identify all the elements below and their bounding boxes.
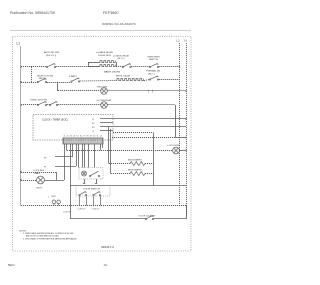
wire rung3 left xyxy=(58,90,101,92)
wire bundle v8 xyxy=(84,144,86,168)
ground symbol xyxy=(48,194,57,198)
switch S4 selector xyxy=(37,75,53,82)
fan motor M1 xyxy=(33,170,45,189)
switch S5 limit xyxy=(69,76,80,82)
broil element R4 xyxy=(128,170,145,176)
svg-text:FAN: FAN xyxy=(35,172,41,175)
svg-text:DOOR SWITCH: DOOR SWITCH xyxy=(83,188,101,190)
control stub wire P4 xyxy=(92,131,113,134)
control board label xyxy=(42,119,68,121)
svg-text:LOCK MTR: LOCK MTR xyxy=(168,145,181,147)
svg-text:120V: 120V xyxy=(51,196,56,198)
svg-text:L1: L1 xyxy=(17,42,21,46)
svg-text:COM NO: COM NO xyxy=(63,212,72,214)
svg-text:FEF366C: FEF366C xyxy=(103,11,120,15)
L2 bus wire xyxy=(179,43,181,206)
control stub wire P3 xyxy=(92,127,186,130)
wire bundle v7 xyxy=(82,144,84,168)
wire bake element right xyxy=(145,163,154,165)
terminal label lower xyxy=(63,212,72,214)
node L1 label xyxy=(17,42,21,46)
note heading xyxy=(20,230,27,232)
svg-text:SWITCH: SWITCH xyxy=(149,59,159,61)
wire bundle v1 xyxy=(64,144,66,180)
header wiring code text xyxy=(102,22,137,26)
wire broil element right xyxy=(145,173,154,175)
svg-text:(N.O.): (N.O.) xyxy=(46,55,57,57)
svg-text:CLOCK / TIMER (EOC): CLOCK / TIMER (EOC) xyxy=(42,119,68,121)
door lock pin 1 xyxy=(83,179,85,184)
wire rung2 to L2 xyxy=(159,79,180,81)
svg-text:2. DISCONNECT POWER BEFORE SER: 2. DISCONNECT POWER BEFORE SERVICING APP… xyxy=(23,237,77,240)
svg-text:COM NO: COM NO xyxy=(78,208,87,210)
svg-text:SELECTOR SW: SELECTOR SW xyxy=(37,75,53,77)
control stub wire P2 xyxy=(92,123,113,126)
switch S2 oven temp xyxy=(113,54,131,67)
wire lock motor to N xyxy=(179,150,186,151)
switch S7b door light xyxy=(49,101,57,105)
wire rung4 right xyxy=(107,104,175,106)
receptacle J1 xyxy=(52,200,60,206)
wire bundle v2 xyxy=(66,144,68,151)
switch S3 oven vent xyxy=(147,56,161,67)
lock motor M2 xyxy=(168,145,181,154)
wire stub left lower xyxy=(44,167,76,169)
wire rung4 mid xyxy=(58,104,101,106)
footer page number xyxy=(103,263,108,267)
header model number text xyxy=(103,11,120,15)
footer date code xyxy=(8,263,15,267)
junction L1 fan rung xyxy=(20,171,22,173)
L1 bus wire xyxy=(20,47,22,206)
wire N bus lower solid xyxy=(186,206,188,220)
N bus wire xyxy=(186,43,188,218)
svg-text:P4: P4 xyxy=(44,158,46,160)
wire bundle v11 xyxy=(100,144,102,151)
door lock dashed box xyxy=(79,168,103,180)
junction L1 fan xyxy=(20,179,22,181)
wire rung1 after element xyxy=(116,66,123,68)
svg-text:316417-2: 316417-2 xyxy=(101,246,115,249)
note line 2 xyxy=(26,235,59,238)
svg-text:(N.C.): (N.C.) xyxy=(148,73,155,75)
wire fan corner xyxy=(56,172,58,180)
bake element R3 xyxy=(128,160,145,166)
door switch S9 xyxy=(78,191,87,210)
svg-text:COOLING: COOLING xyxy=(33,170,45,172)
door lock switch S8 xyxy=(89,171,99,176)
wire rung1 mid xyxy=(56,66,100,68)
wire stub left upper xyxy=(44,157,73,160)
svg-text:c/o BAKE RELAY: c/o BAKE RELAY xyxy=(96,51,114,54)
door switch S10 xyxy=(92,191,101,210)
note line 1 xyxy=(23,232,74,235)
junction rung1 L2 xyxy=(179,66,181,68)
control board dashed box xyxy=(33,115,113,141)
svg-text:5E04: 5E04 xyxy=(8,263,15,267)
wire fan rung upper xyxy=(21,172,57,174)
wire rung4 gap xyxy=(47,104,50,106)
wire rung2 after element xyxy=(144,80,150,81)
switch S11 door lock interlock xyxy=(138,215,155,219)
wire rung4 left xyxy=(21,104,38,106)
wire rung1 left xyxy=(21,66,47,68)
switch S7 oven light switch xyxy=(30,100,47,106)
svg-text:OVEN VENT: OVEN VENT xyxy=(147,56,161,58)
door lock motor M3 xyxy=(82,171,87,176)
junction L1 rung2 xyxy=(20,81,22,83)
wire bottom lower right xyxy=(154,218,186,220)
wire bundle v9 xyxy=(88,144,90,168)
svg-text:P5: P5 xyxy=(44,167,46,169)
svg-text:Publication No. 5995441709: Publication No. 5995441709 xyxy=(10,11,55,15)
svg-text:BK ELEMENT: BK ELEMENT xyxy=(128,160,143,162)
svg-text:WIRING SC-03-A5A67C: WIRING SC-03-A5A67C xyxy=(102,22,137,26)
svg-text:BR ELEMENT: BR ELEMENT xyxy=(128,170,143,172)
svg-text:1 2 3 4 5 6 7 8 9 0 1 2: 1 2 3 4 5 6 7 8 9 0 1 2 xyxy=(63,136,102,138)
tick marks rung3 connector xyxy=(149,90,153,93)
wire bundle v10 xyxy=(94,144,96,168)
header rule line xyxy=(10,30,191,32)
svg-text:DL: DL xyxy=(92,119,94,121)
wire bake element feed xyxy=(109,127,131,164)
svg-text:BROIL 3000W: BROIL 3000W xyxy=(116,76,130,78)
wire bottom lower left xyxy=(70,218,146,220)
terminal strip TB1 xyxy=(63,136,103,144)
control stub wire P1 xyxy=(92,118,187,121)
node N label xyxy=(185,39,187,43)
svg-text:ANTI-TIP SW: ANTI-TIP SW xyxy=(44,51,60,54)
switch S1 anti-tip xyxy=(44,51,60,68)
wire bottom rung xyxy=(21,205,187,207)
oven lamp DS1 xyxy=(97,86,109,94)
wire bundle v3 xyxy=(70,144,72,219)
door switch dashed box xyxy=(76,186,110,197)
svg-text:-19-: -19- xyxy=(103,263,108,267)
wire bundle v4 xyxy=(72,144,74,157)
bake element dual square-wave R1 xyxy=(88,51,120,73)
svg-text:1. SWITCHES SHOWN WITH ALL CON: 1. SWITCHES SHOWN WITH ALL CONTROLS IN O… xyxy=(23,232,74,235)
switch S6 thermal xyxy=(146,70,160,81)
schematic dashed border box xyxy=(13,37,192,252)
wire broil element feed xyxy=(111,129,131,174)
indicator lamp DS2 xyxy=(97,99,113,108)
wire rung4 riser to N xyxy=(176,105,187,138)
wire fan left stub xyxy=(21,180,37,182)
svg-text:BAKE 2350W: BAKE 2350W xyxy=(104,71,120,74)
svg-text:AND DOOR CLOSED AND UNLOCKED.: AND DOOR CLOSED AND UNLOCKED. xyxy=(26,235,59,238)
svg-text:LIMIT: LIMIT xyxy=(69,76,78,78)
note line 3 xyxy=(23,237,77,240)
junction L1 rung1 xyxy=(20,66,22,68)
wire branch rung1 to rung2 xyxy=(31,66,32,82)
svg-text:(N.O.): (N.O.) xyxy=(118,58,125,60)
svg-text:L1: L1 xyxy=(92,131,94,133)
wire rung2 left xyxy=(21,82,38,84)
wire rung2 mid xyxy=(47,82,72,84)
svg-text:MOT: MOT xyxy=(37,187,44,189)
wire branch from rung2 down xyxy=(57,82,59,91)
wire bundle v12 xyxy=(102,144,104,148)
svg-text:2350W 240V: 2350W 240V xyxy=(98,55,112,57)
svg-text:BROIL: BROIL xyxy=(39,78,47,80)
wire fan right xyxy=(44,180,64,182)
wire lower horizontal xyxy=(70,185,186,187)
svg-text:THERMAL SW: THERMAL SW xyxy=(146,70,160,73)
broil element square-wave R2 xyxy=(116,76,144,81)
wire bundle v6 xyxy=(78,144,80,168)
door lock pin 2 xyxy=(95,179,97,184)
svg-text:L2: L2 xyxy=(177,39,180,43)
wire drop from stub P4 xyxy=(113,133,154,186)
junction L1 rung4 xyxy=(20,104,22,106)
diagram part number xyxy=(101,246,115,249)
wire lock motor rung xyxy=(67,150,173,152)
wire mid connector xyxy=(112,137,176,139)
wire rung2 mid2 xyxy=(80,80,117,83)
svg-text:c/o BROIL RELAY: c/o BROIL RELAY xyxy=(113,54,130,57)
wire bundle v5 xyxy=(76,144,78,166)
node L2 label xyxy=(177,39,180,43)
svg-text:N: N xyxy=(185,39,187,43)
svg-text:OVEN LIGHT SW: OVEN LIGHT SW xyxy=(30,100,47,102)
wire rung1 to L2 xyxy=(159,66,180,68)
wire rung1 mid2 xyxy=(131,66,150,68)
header publication number text xyxy=(10,11,55,15)
wire rung3 right xyxy=(107,90,186,91)
svg-text:COM NO: COM NO xyxy=(92,208,101,210)
